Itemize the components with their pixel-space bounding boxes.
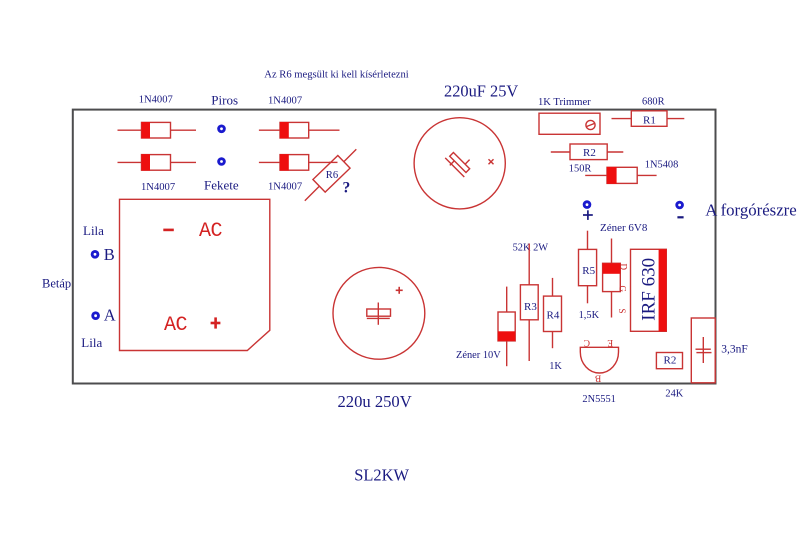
svg-text:A: A bbox=[104, 305, 116, 324]
svg-text:?: ? bbox=[343, 180, 351, 197]
resistor R6 (rotated) bbox=[305, 149, 357, 201]
zener D7 6V8 bbox=[603, 239, 621, 318]
capacitor C3 3,3nF bbox=[691, 318, 715, 383]
diode D1 1N4007 bbox=[118, 122, 197, 138]
svg-text:D: D bbox=[619, 264, 629, 271]
resistor R5 bbox=[579, 231, 597, 304]
svg-text:Fekete: Fekete bbox=[204, 178, 239, 193]
svg-text:IRF 630: IRF 630 bbox=[639, 258, 660, 321]
svg-text:R6: R6 bbox=[326, 170, 338, 181]
svg-text:Az R6 megsült ki kell kísérlet: Az R6 megsült ki kell kísérletezni bbox=[264, 69, 409, 80]
resistor R2 150R bbox=[551, 144, 624, 160]
diode D3 1N4007 bbox=[118, 154, 197, 170]
capacitor C1 220uF 25V bbox=[414, 118, 505, 209]
pad + bbox=[583, 200, 592, 209]
svg-text:B: B bbox=[595, 372, 601, 382]
transistor Q1 2N5551 bbox=[580, 337, 618, 382]
svg-text:1N4007: 1N4007 bbox=[268, 182, 302, 193]
svg-text:1N4007: 1N4007 bbox=[139, 94, 173, 105]
svg-text:R3: R3 bbox=[524, 301, 537, 313]
svg-text:1N4007: 1N4007 bbox=[268, 96, 302, 107]
svg-text:B: B bbox=[104, 245, 115, 264]
diode D5 1N5408 bbox=[585, 167, 656, 184]
resistor R4 bbox=[544, 278, 562, 348]
svg-text:1K Trimmer: 1K Trimmer bbox=[538, 97, 591, 108]
diode D2 1N4007 bbox=[259, 122, 340, 138]
svg-text:Lila: Lila bbox=[81, 335, 102, 350]
svg-text:A forgórészre: A forgórészre bbox=[705, 201, 797, 220]
svg-text:1K: 1K bbox=[549, 361, 562, 372]
svg-text:Zéner 6V8: Zéner 6V8 bbox=[600, 222, 648, 234]
svg-text:24K: 24K bbox=[665, 388, 683, 399]
pad B bbox=[91, 250, 100, 259]
board outline bbox=[73, 110, 716, 384]
svg-text:AC: AC bbox=[199, 220, 223, 243]
transistor U1 IRF630 bbox=[617, 249, 667, 331]
svg-text:C: C bbox=[584, 337, 590, 347]
svg-text:Zéner 10V: Zéner 10V bbox=[456, 350, 501, 361]
svg-text:3,3nF: 3,3nF bbox=[721, 343, 748, 355]
svg-text:Piros: Piros bbox=[211, 93, 238, 108]
svg-text:1N5408: 1N5408 bbox=[645, 160, 678, 171]
resistor R2 24K bbox=[656, 353, 682, 369]
svg-text:Lila: Lila bbox=[83, 223, 104, 238]
resistor R3 52K 2W bbox=[520, 244, 538, 362]
svg-text:1,5K: 1,5K bbox=[579, 310, 600, 321]
svg-text:SL2KW: SL2KW bbox=[354, 466, 409, 485]
pad Fekete bbox=[217, 157, 226, 166]
svg-text:150R: 150R bbox=[569, 164, 592, 175]
svg-text:Betáp: Betáp bbox=[42, 276, 71, 290]
transformer bridge block bbox=[120, 199, 270, 350]
svg-text:680R: 680R bbox=[642, 96, 665, 107]
svg-text:AC: AC bbox=[164, 314, 188, 337]
svg-text:S: S bbox=[617, 309, 627, 314]
svg-text:R1: R1 bbox=[643, 114, 656, 126]
svg-text:R4: R4 bbox=[547, 310, 560, 322]
svg-text:E: E bbox=[607, 337, 613, 347]
svg-text:G: G bbox=[618, 286, 628, 293]
svg-text:R2: R2 bbox=[664, 355, 677, 367]
pad - bbox=[675, 201, 684, 210]
pad A bbox=[91, 311, 100, 320]
svg-text:220u 250V: 220u 250V bbox=[338, 392, 412, 411]
trimmer P1 1K bbox=[539, 113, 600, 134]
wire over R6 bbox=[329, 161, 338, 163]
plus mark bbox=[211, 317, 221, 328]
resistor R1 680R bbox=[612, 111, 685, 127]
pad Piros bbox=[217, 125, 226, 134]
svg-text:R5: R5 bbox=[582, 265, 595, 277]
svg-text:R2: R2 bbox=[583, 147, 596, 159]
svg-text:220uF 25V: 220uF 25V bbox=[444, 82, 518, 101]
diode D4 1N4007 bbox=[259, 154, 338, 170]
minus mark bbox=[163, 229, 174, 232]
svg-text:2N5551: 2N5551 bbox=[582, 394, 615, 405]
svg-text:52K 2W: 52K 2W bbox=[513, 243, 549, 254]
svg-text:1N4007: 1N4007 bbox=[141, 182, 175, 193]
zener D6 10V bbox=[498, 287, 515, 367]
capacitor C2 220u 250V bbox=[333, 267, 425, 359]
